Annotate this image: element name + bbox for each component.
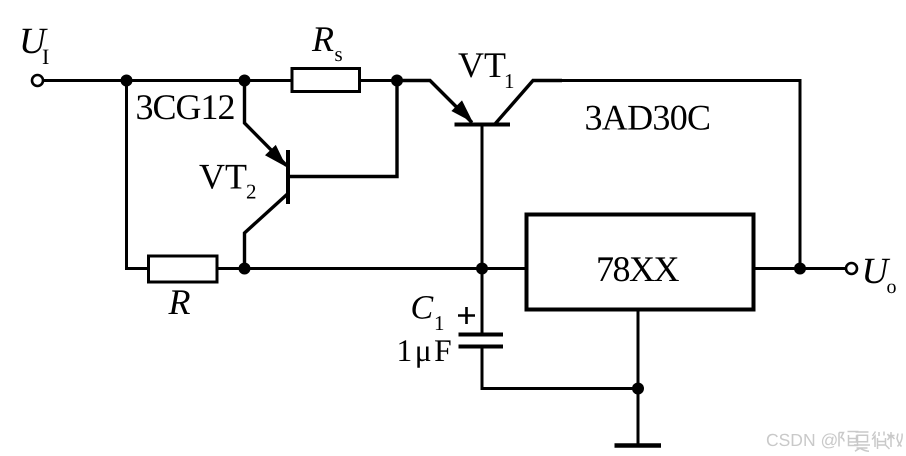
svg-text:1μF: 1μF bbox=[397, 333, 455, 368]
resistor Rs bbox=[292, 69, 360, 92]
output terminal U_o bbox=[846, 263, 857, 274]
wire 78XX output to terminal bbox=[754, 267, 847, 270]
regulator 78XX box bbox=[527, 215, 754, 310]
resistor R bbox=[149, 256, 218, 282]
svg-text:I: I bbox=[42, 44, 49, 69]
plus polarity mark of C1 bbox=[458, 307, 475, 324]
transistor VT1 emitter arrow bbox=[451, 100, 473, 122]
svg-text:o: o bbox=[887, 276, 897, 298]
wire Rs right to VT1 emitter bend bbox=[360, 79, 431, 82]
transistor VT1 collector lead bbox=[495, 81, 562, 125]
capacitor C1 bottom lead wire to ground node bbox=[482, 349, 638, 389]
transistor VT2 base bar bbox=[286, 150, 290, 204]
transistor VT2 collector lead bbox=[245, 194, 289, 269]
svg-text:VT: VT bbox=[199, 157, 247, 197]
svg-text:3AD30C: 3AD30C bbox=[585, 98, 711, 138]
svg-text:1: 1 bbox=[504, 69, 515, 93]
transistor VT2 emitter arrow bbox=[265, 145, 287, 167]
wire R to mid node bbox=[217, 267, 245, 270]
wire top rail input to Rs bbox=[44, 79, 293, 82]
svg-text:R: R bbox=[311, 19, 334, 59]
capacitor C1 top lead bbox=[481, 269, 484, 333]
watermark CJK glyph xia bbox=[854, 432, 870, 451]
watermark CJK glyph wei bbox=[872, 432, 891, 450]
ground symbol bbox=[615, 443, 662, 448]
input terminal U_I bbox=[32, 75, 43, 86]
svg-text:C: C bbox=[411, 290, 434, 327]
wire 78XX ground pin down bbox=[637, 310, 640, 445]
wire VT2 base to Rs-right rail bbox=[289, 81, 397, 177]
node dot input junction bbox=[121, 75, 133, 87]
node dot Rs right junction bbox=[391, 75, 403, 87]
node dot 78XX input junction bbox=[476, 263, 488, 275]
svg-text:VT: VT bbox=[458, 45, 506, 85]
wire VT1 base lead down bbox=[481, 126, 484, 269]
transistor VT2 emitter lead bbox=[245, 81, 287, 166]
svg-text:3CG12: 3CG12 bbox=[136, 87, 235, 127]
transistor VT1 base bar bbox=[455, 123, 511, 127]
wire VT1 collector to right rail bbox=[533, 81, 800, 269]
capacitor C1 bottom plate bbox=[459, 345, 504, 349]
watermark CJK glyph qiu bbox=[888, 432, 903, 447]
watermark CJK glyph mo bbox=[839, 432, 902, 452]
node dot R right junction bbox=[239, 263, 251, 275]
svg-text:s: s bbox=[335, 42, 343, 66]
node dot VT2 emitter junction bbox=[239, 75, 251, 87]
svg-text:1: 1 bbox=[434, 311, 445, 335]
svg-text:78XX: 78XX bbox=[596, 249, 679, 289]
node dot output junction bbox=[794, 263, 806, 275]
svg-text:2: 2 bbox=[246, 180, 257, 204]
svg-text:R: R bbox=[168, 282, 191, 322]
capacitor C1 top plate bbox=[459, 333, 504, 337]
left rail wire down to R bbox=[127, 81, 149, 269]
transistor VT1 emitter lead bbox=[397, 81, 472, 123]
wire mid rail to 78XX input bbox=[245, 267, 527, 270]
svg-text:CSDN @: CSDN @ bbox=[766, 430, 838, 450]
node dot ground junction bbox=[632, 383, 644, 395]
